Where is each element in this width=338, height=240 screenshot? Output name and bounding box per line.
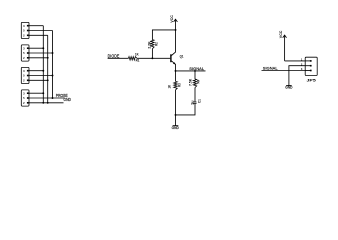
svg-text:Q1: Q1 [180,54,184,58]
junction bus B / C2 pin2 [52,52,54,54]
wire C3 pin1 to bus A [29,70,43,72]
connector J2 [21,45,29,61]
svg-text:SIGNAL: SIGNAL [189,66,205,71]
svg-text:1K: 1K [168,84,172,88]
svg-text:2.2K: 2.2K [147,41,151,49]
wire JP5 pin2 to ground [289,66,305,86]
svg-text:VCC: VCC [279,30,283,38]
wire C3 pin3 to bus C [29,79,48,81]
svg-text:R1: R1 [136,59,140,63]
wire net GND (C4 pin3) [29,102,64,104]
svg-text:C1: C1 [197,99,201,103]
bus C vertical [47,35,49,103]
wire C4 pin1 to bus A [29,92,43,94]
wire net SIGNAL (middle) [176,70,206,72]
junction bus B / PROBE [52,97,54,99]
junction emitter / SIGNAL [175,70,177,72]
wire R1 to Q1 base [137,57,170,59]
svg-text:7.5K: 7.5K [189,78,193,86]
connector JP5 [301,57,317,82]
junction bus A / GND wire [42,102,44,104]
svg-text:GND: GND [285,86,293,90]
junction bus C / C3 pin3 [47,79,49,81]
wire VCC to JP5 pin1 [285,60,306,62]
svg-text:R3: R3 [177,83,181,87]
svg-text:R4: R4 [197,79,201,83]
svg-text:R2: R2 [154,42,158,46]
connector J1 [21,22,29,38]
wire C3 pin2 to bus B [29,75,53,77]
svg-text:VCC: VCC [170,15,174,23]
capacitor C1 [191,99,202,105]
junction gnd line [175,114,177,116]
junction bus A / C3 pin1 [42,70,44,72]
wire C1 pin2 to bus B [29,30,53,32]
wire DIODE to R1 [108,57,129,59]
junction bus B / C3 pin2 [52,75,54,77]
wire C1 pin1 to bus A [29,25,43,27]
junction bus A / C2 pin1 [42,47,44,49]
wire C2 pin1 to bus A [29,47,43,49]
resistor R1 1K [129,53,140,63]
bus B vertical [52,31,54,99]
junction VCC / R2 top [175,29,177,31]
wire C1 to gnd line [176,104,196,115]
ground (right) [285,86,293,90]
connector J3 [21,67,29,83]
svg-text:GND: GND [172,126,180,130]
resistor R2 2.2K (pullup) [147,30,175,58]
resistor R4 7.5K [189,71,201,102]
power VCC (middle) [170,15,177,30]
transistor Q1 [170,30,183,71]
wire C2 pin3 to bus C [29,57,48,59]
power VCC (right) [279,30,287,61]
wire C2 pin2 to bus B [29,52,53,54]
svg-text:GND: GND [64,97,72,102]
ground (middle) [172,126,180,130]
bus A vertical [42,26,44,103]
svg-text:SIGNAL: SIGNAL [263,66,279,71]
junction SIGNAL / R4 chain [194,70,196,72]
svg-text:1u: 1u [191,100,195,105]
junction bus C / GND wire [47,102,49,104]
svg-text:JP5: JP5 [307,77,317,82]
connector J4 [21,90,29,106]
svg-text:DIODE: DIODE [108,54,120,59]
junction bus A / C4 pin1 [42,92,44,94]
wire net SIGNAL (right) to JP5 pin3 [262,70,306,72]
svg-text:1K: 1K [135,53,139,57]
wire net PROBE (C4 pin2) [29,97,65,99]
wire C1 pin3 to bus C [29,34,48,36]
junction base / R2 [151,57,153,59]
junction bus C / C2 pin3 [47,57,49,59]
resistor R3 1K (emitter to gnd) [168,71,182,126]
